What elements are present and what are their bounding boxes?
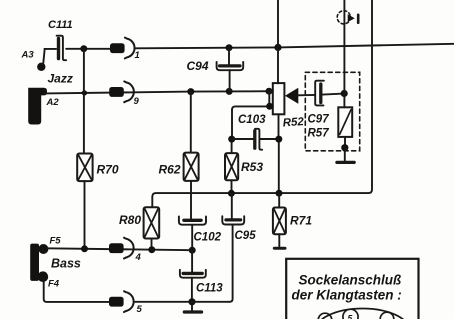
svg-text:9: 9 (134, 96, 140, 107)
svg-text:C113: C113 (196, 283, 223, 295)
resistor R71 (273, 208, 286, 235)
ground under R71 (274, 234, 285, 248)
wire wiper to C97 (298, 94, 345, 96)
socket outline ellipse (315, 309, 410, 319)
node R80/bass (148, 246, 155, 253)
wire connector 5 to C95 column (135, 301, 230, 303)
trimmer R57 (338, 107, 352, 137)
svg-text:A2: A2 (46, 97, 60, 108)
ground under R57 (337, 148, 354, 163)
svg-text:R80: R80 (119, 213, 141, 227)
svg-text:R53: R53 (241, 160, 263, 174)
svg-text:C111: C111 (48, 19, 73, 31)
svg-text:4: 4 (135, 252, 142, 263)
svg-text:F4: F4 (48, 279, 60, 290)
wire R70 column (83, 49, 86, 249)
node C103 left (228, 136, 235, 143)
resistor R80 (144, 207, 160, 238)
connector 5 (109, 291, 134, 312)
svg-text:C94: C94 (187, 59, 209, 73)
node R70/bass (81, 245, 88, 252)
svg-text:5: 5 (137, 304, 143, 315)
wire (43, 49, 56, 63)
terminal A3 (37, 63, 45, 71)
potentiometer R52 (273, 83, 285, 114)
wire F4 to connector 5 (44, 281, 110, 302)
socket pin circle right (380, 312, 394, 319)
resistor R62 (184, 153, 199, 181)
node wiper / R57 top (341, 90, 348, 97)
svg-text:der Klangtasten :: der Klangtasten : (292, 288, 402, 303)
wire R52 left stubs (232, 91, 273, 110)
svg-text:A3: A3 (21, 50, 35, 61)
socket pin circle left (318, 313, 332, 319)
capacitor C102 (179, 216, 206, 249)
node C94 top (226, 44, 233, 51)
svg-text:R57: R57 (308, 128, 330, 140)
svg-text:C95: C95 (235, 230, 257, 242)
node C102 / bass bus (189, 247, 196, 254)
node R53/C95 on return wire (228, 190, 235, 197)
svg-text:C103: C103 (238, 114, 266, 126)
wire top bus (135, 44, 454, 49)
wire R80 bottom (151, 239, 153, 250)
terminal F5 / F4 Bass bracket (30, 244, 48, 282)
svg-text:1: 1 (135, 50, 140, 61)
capacitor C103 (232, 129, 279, 150)
wire (66, 48, 110, 50)
capacitor C97 (315, 81, 324, 106)
capacitor C113 (180, 270, 206, 302)
ground under C113 (184, 302, 201, 312)
node C113 bottom (188, 298, 195, 305)
wire C113 column (191, 250, 193, 272)
capacitor C111 (57, 36, 67, 61)
resistor R53 (225, 153, 238, 180)
node R52 top (274, 44, 281, 51)
node R57 bottom (341, 144, 348, 151)
svg-text:R62: R62 (159, 163, 181, 177)
svg-text:C97: C97 (308, 114, 330, 126)
capacitor C95 (222, 193, 244, 301)
node C103 right (275, 136, 282, 143)
wire R53 column (231, 110, 234, 194)
wire bass bus (47, 248, 192, 250)
wire R57 column (343, 0, 346, 148)
svg-text:F5: F5 (50, 236, 62, 247)
arrow-out symbol at top (337, 11, 358, 24)
svg-text:C102: C102 (194, 232, 222, 244)
svg-text:Jazz: Jazz (48, 72, 73, 86)
node R52 left lower (266, 103, 273, 110)
legend box Sockelanschluss (286, 259, 418, 319)
node A2/R70 column (82, 90, 87, 95)
terminal A2 (28, 88, 47, 125)
connector 1 (110, 38, 135, 59)
resistor R70 (77, 154, 92, 182)
wiper arrow of R52 (285, 88, 298, 104)
svg-text:R70: R70 (97, 163, 119, 177)
wire R71 column (278, 193, 280, 207)
wire A2 bus (45, 91, 273, 93)
socket pin circle 5 (343, 309, 358, 319)
svg-text:Bass: Bass (51, 257, 81, 271)
connector 4 (109, 238, 134, 259)
capacitor C94 (217, 48, 244, 92)
wire right return loop (152, 0, 372, 207)
node R71 top (276, 190, 283, 197)
node C94 bottom (226, 88, 233, 95)
wire R52 column from top edge (277, 0, 280, 193)
svg-text:5: 5 (348, 313, 353, 319)
wire R62 column (190, 92, 192, 219)
node R62 top (187, 88, 194, 95)
svg-text:R71: R71 (290, 214, 312, 228)
svg-text:R52: R52 (282, 116, 304, 129)
node junction C111/R70 (80, 45, 87, 52)
node R52 left upper (266, 88, 273, 95)
svg-text:Sockelanschluß: Sockelanschluß (299, 273, 402, 288)
dashed box around C97/R57 (305, 72, 359, 151)
connector 9 (109, 81, 134, 102)
